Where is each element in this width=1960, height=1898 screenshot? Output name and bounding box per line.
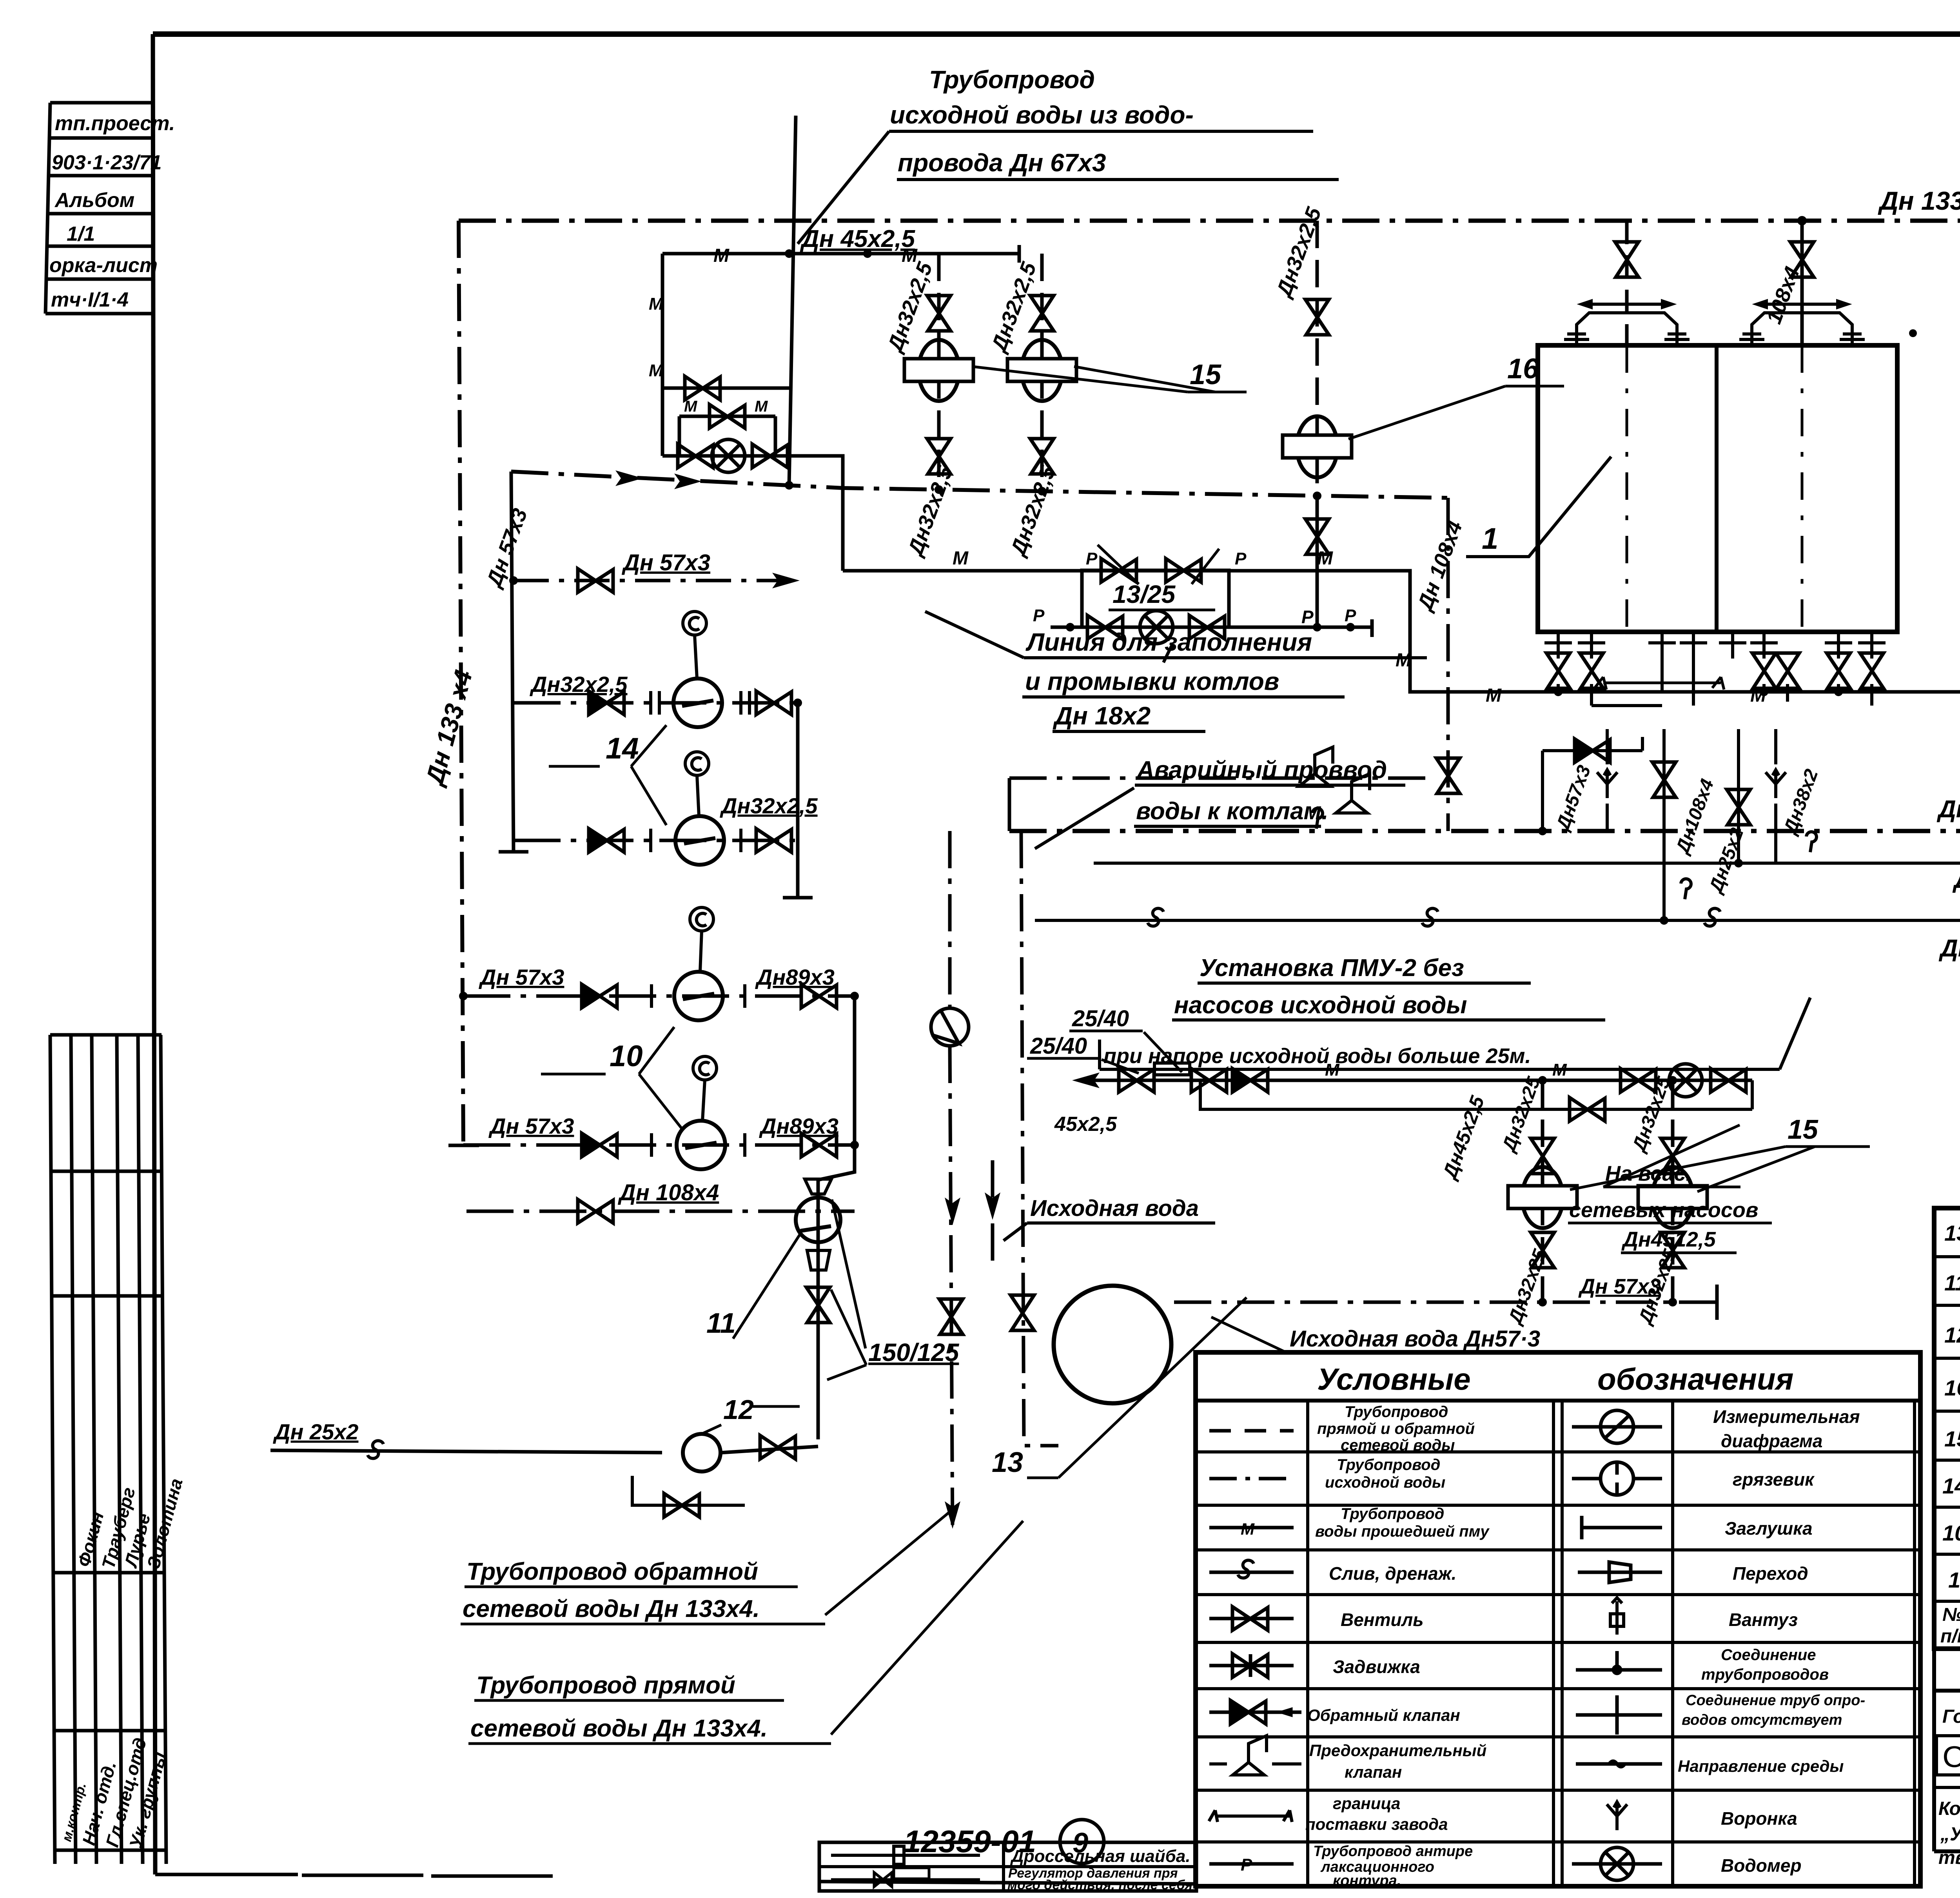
pipe: city water feed vertical <box>789 116 796 485</box>
pump row 10-1 <box>463 994 855 998</box>
svg-text:провода Дн 67х3: провода Дн 67х3 <box>898 149 1106 177</box>
pump row 10-2 <box>463 1143 855 1147</box>
annotation Трубопровод прямой сетевой воды <box>470 1672 768 1742</box>
annotation: Трубопровод исходной воды из водопровода Дн 67х3 <box>890 65 1194 177</box>
svg-text:Дн32х2,5: Дн32х2,5 <box>720 793 818 818</box>
valve <box>578 1199 613 1223</box>
svg-text:п/п.: п/п. <box>1940 1626 1960 1647</box>
valve right <box>801 984 837 1008</box>
svg-text:45х2,5: 45х2,5 <box>1054 1113 1117 1136</box>
left margin rotated signatures <box>59 1476 187 1851</box>
annotation Установка ПМУ-2 без насосов исходной воды <box>1054 954 1531 1136</box>
svg-text:25/40: 25/40 <box>1030 1033 1087 1059</box>
svg-text:М: М <box>1241 1520 1255 1538</box>
svg-text:М: М <box>713 245 730 266</box>
under-boiler group 1b <box>1719 632 1886 659</box>
svg-text:Р: Р <box>1345 606 1356 625</box>
svg-text:Трубопровод: Трубопровод <box>1345 1403 1448 1421</box>
svg-text:Предохранительный: Предохранительный <box>1309 1741 1486 1760</box>
svg-text:М: М <box>953 548 969 569</box>
svg-text:Дн89х3: Дн89х3 <box>759 1114 838 1138</box>
funnel above грязевик <box>805 1179 831 1194</box>
svg-text:14: 14 <box>1942 1473 1960 1498</box>
makeup meter row <box>662 456 843 501</box>
valve right <box>756 691 791 715</box>
svg-text:1: 1 <box>1948 1568 1960 1592</box>
legend row1 symbols <box>1209 1429 1294 1433</box>
legend row9 <box>1209 1810 1292 1822</box>
s curl <box>368 1441 383 1458</box>
svg-text:и промывки котлов: и промывки котлов <box>1025 667 1279 695</box>
svg-text:903·1·23/71: 903·1·23/71 <box>52 151 162 174</box>
right collector of 10 group / грязевик branch <box>818 996 855 1180</box>
svg-text:12: 12 <box>723 1394 754 1425</box>
boiler riser 1b <box>1800 221 1804 345</box>
title block <box>1934 1691 1960 1851</box>
svg-text:Госстрой: Госстрой <box>1942 1706 1960 1727</box>
check valve <box>589 829 624 852</box>
svg-text:Дн 57х3: Дн 57х3 <box>621 550 710 575</box>
pump 14-1 <box>673 679 722 727</box>
pipe: Дн25х2 line <box>1094 862 1960 865</box>
arrows on исходная вода line <box>615 470 643 486</box>
left margin stamp table (top) <box>45 103 152 314</box>
hand pump 12 row Дн25х2 <box>270 1446 818 1453</box>
svg-text:Дн 133х4: Дн 133х4 <box>1878 186 1960 215</box>
check valve <box>582 984 617 1008</box>
legend row6 <box>1209 1664 1294 1668</box>
central return riser (dash-dot down) <box>950 831 953 1529</box>
junction dots <box>785 249 872 258</box>
PMU unit 15c <box>1541 1080 1544 1302</box>
svg-text:Воронка: Воронка <box>1721 1808 1797 1829</box>
pipe: М-line Дн45х2,5 top <box>662 245 1019 263</box>
воронка and drops 1 <box>1607 729 1776 920</box>
svg-text:Исходная вода: Исходная вода <box>1030 1196 1199 1221</box>
pump row 14-1 <box>514 701 798 705</box>
svg-text:М: М <box>1325 1060 1340 1080</box>
svg-text:исходной воды: исходной воды <box>1325 1474 1445 1491</box>
svg-text:„Универсал- 6м": „Универсал- 6м" <box>1940 1824 1960 1845</box>
equipment table (экспликация) box <box>1934 1208 1960 1691</box>
alternative PMU feed row <box>1086 1079 1752 1082</box>
boiler center dash lines <box>1627 345 1960 632</box>
coupling marks <box>651 691 750 715</box>
boiler 1 body <box>1538 345 1897 632</box>
svg-text:прямой и обратной: прямой и обратной <box>1317 1420 1475 1437</box>
pump 10-1 <box>674 972 723 1020</box>
PMU unit 15a column <box>937 254 941 490</box>
legend row4 <box>1209 1571 1294 1574</box>
annotation Аварийный проввод воды к котлам <box>1136 757 1387 825</box>
pipe: return header Дн133х4 (dash-dot) <box>1009 829 1960 833</box>
svg-text:Задвижка: Задвижка <box>1333 1657 1420 1677</box>
svg-text:обозначения: обозначения <box>1597 1362 1793 1396</box>
svg-text:твердом: твердом <box>1938 1847 1960 1868</box>
svg-text:12: 12 <box>1944 1323 1960 1347</box>
svg-text:М: М <box>1486 685 1502 706</box>
svg-text:Р: Р <box>1241 1855 1252 1874</box>
svg-text:16: 16 <box>1944 1375 1960 1400</box>
valve <box>678 444 713 468</box>
водомер 2 <box>1669 1064 1702 1097</box>
pipe row: Дн57х3 recirc (dash-dot) <box>514 579 800 582</box>
svg-text:граница: граница <box>1333 1794 1400 1813</box>
svg-text:М: М <box>1396 650 1412 671</box>
pipe row Дн108х4 bottom (dash-dot) <box>466 1210 855 1213</box>
arrow <box>772 573 800 588</box>
водомер <box>712 439 745 472</box>
svg-text:воды прошедшей пму: воды прошедшей пму <box>1315 1523 1490 1540</box>
грязевик 11 <box>796 1198 840 1242</box>
svg-text:Р: Р <box>1235 549 1247 568</box>
svg-text:грязевик: грязевик <box>1733 1469 1815 1490</box>
svg-text:М: М <box>684 398 698 415</box>
svg-text:поставки завода: поставки завода <box>1305 1815 1448 1833</box>
svg-text:Трубопровод антире: Трубопровод антире <box>1313 1843 1473 1860</box>
junction dots pmu feeds <box>785 481 1321 500</box>
PMU unit 16 column <box>1316 221 1319 496</box>
svg-text:150/125: 150/125 <box>868 1338 960 1366</box>
svg-text:Р: Р <box>1033 606 1045 625</box>
small sub-table дроссельная шайба <box>815 1842 1196 1898</box>
svg-text:Дн 25х2: Дн 25х2 <box>273 1419 358 1444</box>
hand pump 12 circle <box>683 1434 720 1472</box>
pipe: М-line (вода прошедшая ПМУ) long horizontal <box>843 571 1960 831</box>
svg-text:Обратный клапан: Обратный клапан <box>1307 1706 1460 1724</box>
svg-text:Котельная с 4 котлами: Котельная с 4 котлами <box>1938 1798 1960 1819</box>
legend row2 <box>1209 1477 1294 1481</box>
svg-text:М: М <box>1317 548 1333 569</box>
svg-text:Трубопровод прямой: Трубопровод прямой <box>476 1672 735 1699</box>
legend table box <box>1196 1352 1920 1886</box>
svg-text:Соединение: Соединение <box>1721 1646 1816 1664</box>
svg-text:насосов исходной воды: насосов исходной воды <box>1174 992 1467 1019</box>
valve <box>752 444 788 468</box>
dome 1b <box>1739 301 1865 345</box>
svg-text:трубопроводов: трубопроводов <box>1701 1666 1829 1683</box>
valve right <box>801 1133 837 1157</box>
svg-text:орка-лист: орка-лист <box>49 254 158 277</box>
pipe: исходная вода dash-dot main <box>511 472 1448 498</box>
sensor С <box>685 752 709 775</box>
svg-text:15: 15 <box>1944 1426 1960 1451</box>
svg-text:10: 10 <box>1942 1521 1960 1545</box>
svg-text:Дн89х3: Дн89х3 <box>755 965 835 989</box>
dome 1a <box>1564 301 1690 345</box>
svg-text:Дн 57х3: Дн 57х3 <box>488 1114 574 1138</box>
bottom collector Дн57х3 <box>1174 1285 1717 1320</box>
annotation: линия для заполнения и промывки котлов Дн18х2 <box>1025 628 1312 730</box>
svg-text:Дн 57х3: Дн 57х3 <box>479 965 564 989</box>
valve right of pump 12 <box>760 1435 795 1459</box>
svg-text:15: 15 <box>1788 1114 1818 1145</box>
sensor С <box>690 907 713 931</box>
PMU unit 15d <box>1671 1080 1675 1302</box>
svg-text:сетевой воды Дн 133х4.: сетевой воды Дн 133х4. <box>463 1595 760 1622</box>
left makeup loop vertical <box>661 254 664 456</box>
svg-text:15: 15 <box>1190 359 1221 390</box>
svg-text:Вантуз: Вантуз <box>1729 1609 1798 1630</box>
funnel below <box>807 1250 830 1270</box>
svg-text:воды к котлам.: воды к котлам. <box>1136 798 1328 825</box>
аварийный проввод line <box>1009 778 1427 831</box>
svg-text:Исходная вода Дн57·3: Исходная вода Дн57·3 <box>1290 1326 1540 1352</box>
pipe: left riser Дн133х4 (dash-dot vertical) <box>448 221 479 1145</box>
svg-text:Аварийный проввод: Аварийный проввод <box>1136 757 1387 784</box>
blowdown well 13 (big circle) <box>1054 1286 1171 1403</box>
valve below грязевик <box>806 1287 830 1323</box>
left margin stamp texts <box>49 112 175 311</box>
svg-text:13/25: 13/25 <box>1112 580 1176 608</box>
check valve <box>589 691 624 715</box>
legend row7 <box>1209 1711 1301 1714</box>
annotation Трубопровод обратной сетевой воды <box>463 1558 760 1622</box>
svg-text:Альбом: Альбом <box>54 189 134 212</box>
pump 10-2 <box>677 1121 725 1169</box>
junction dots return header <box>1538 827 1960 925</box>
М-line left corner to makeup row <box>841 456 845 571</box>
svg-text:13: 13 <box>992 1447 1023 1478</box>
svg-text:сетевых насосов: сетевых насосов <box>1569 1198 1758 1222</box>
svg-text:Дн 57х3: Дн 57х3 <box>1938 935 1960 962</box>
delivery boundary marks on М-line <box>1595 677 1960 690</box>
legend row3 <box>1209 1526 1294 1530</box>
svg-text:САНТЕХПРОЕКТ: САНТЕХПРОЕКТ <box>1942 1740 1960 1774</box>
svg-text:Трубопровод: Трубопровод <box>1341 1505 1444 1522</box>
PMU unit 15b column <box>1040 254 1044 491</box>
svg-text:Заглушка: Заглушка <box>1725 1518 1813 1539</box>
valve right <box>756 829 791 852</box>
check valve <box>582 1133 617 1157</box>
водомер на линии заполнения <box>1140 611 1173 644</box>
equipment rows text <box>1942 1221 1960 1592</box>
svg-text:Условные: Условные <box>1317 1362 1471 1396</box>
svg-text:тч·I/1·4: тч·I/1·4 <box>51 289 129 311</box>
svg-text:Дн 18х2: Дн 18х2 <box>1053 702 1151 730</box>
svg-text:14: 14 <box>606 732 639 765</box>
annotation На всас. сетевых насосов <box>1569 1162 1758 1251</box>
relief valves on аварийный line <box>1299 747 1333 786</box>
svg-text:Дн 57х3: Дн 57х3 <box>1578 1275 1661 1298</box>
svg-text:М: М <box>649 361 664 380</box>
pipe: supply header Дн133х4 (dash-dot) <box>459 202 1960 239</box>
svg-text:М: М <box>649 294 664 314</box>
legend row10 <box>1209 1862 1294 1866</box>
sensor С <box>683 611 706 635</box>
makeup bypass row <box>679 416 775 456</box>
network pump symbol on return riser <box>931 1008 969 1046</box>
svg-text:1/1: 1/1 <box>67 223 95 245</box>
valve on bypass <box>710 405 745 428</box>
svg-text:11: 11 <box>1944 1270 1960 1295</box>
svg-text:Дн 133х4: Дн 133х4 <box>1936 796 1960 823</box>
svg-text:9: 9 <box>1073 1827 1088 1859</box>
pump 14-2 <box>675 816 724 865</box>
bypass loop <box>1200 1080 1752 1109</box>
boiler riser 1a <box>1625 221 1629 345</box>
svg-text:Установка ПМУ-2 без: Установка ПМУ-2 без <box>1200 954 1464 982</box>
pipe: drain line Дн57х3 with s-curls <box>1035 919 1960 922</box>
drain drops boiler1: check valve branch <box>1543 737 1642 831</box>
svg-text:Соединение труб опро-: Соединение труб опро- <box>1686 1692 1865 1709</box>
svg-text:13: 13 <box>1944 1221 1960 1245</box>
svg-text:Слив, дренаж.: Слив, дренаж. <box>1329 1563 1456 1584</box>
supply riser down to well <box>1021 831 1058 1446</box>
svg-text:11: 11 <box>706 1308 736 1339</box>
down arrow on supply riser <box>991 1160 995 1270</box>
svg-text:Направление среды: Направление среды <box>1678 1757 1844 1775</box>
svg-text:Дн 108х4: Дн 108х4 <box>617 1180 719 1205</box>
svg-text:Трубопровод обратной: Трубопровод обратной <box>466 1558 758 1585</box>
svg-text:водов отсутствует: водов отсутствует <box>1682 1712 1842 1728</box>
svg-text:Дн32х2,5: Дн32х2,5 <box>530 672 628 697</box>
svg-text:1: 1 <box>1482 522 1498 555</box>
labels 25/40 with leaders <box>1030 1006 1129 1059</box>
makeup row 1 <box>662 386 789 390</box>
svg-text:Измерительная: Измерительная <box>1713 1406 1860 1427</box>
svg-text:25/40: 25/40 <box>1072 1006 1129 1031</box>
legend row5 <box>1209 1617 1294 1620</box>
svg-text:сетевой воды: сетевой воды <box>1341 1437 1455 1454</box>
svg-text:№: № <box>1942 1604 1960 1625</box>
header row <box>1940 1604 1960 1647</box>
svg-text:10: 10 <box>610 1040 643 1073</box>
filling line cluster (13/25) bypass <box>1051 570 1372 627</box>
pump row 14-2 <box>514 839 798 842</box>
left margin tall grid (bottom) <box>50 1035 166 1864</box>
грязевик riser <box>817 1180 820 1439</box>
junction dots on М-line <box>1554 688 1960 696</box>
svg-text:клапан: клапан <box>1345 1763 1402 1781</box>
under-boiler flanges and valves group 1a <box>1544 632 1707 659</box>
svg-text:16: 16 <box>1507 353 1539 385</box>
svg-text:исходной воды из водо-: исходной воды из водо- <box>890 101 1194 129</box>
svg-text:Дн 45х2,5: Дн 45х2,5 <box>800 225 916 252</box>
big valve on left return riser <box>1436 758 1460 793</box>
svg-text:Р: Р <box>1301 607 1314 627</box>
right collector of 14 group <box>783 703 813 898</box>
svg-text:12359-01: 12359-01 <box>904 1824 1036 1859</box>
svg-text:Трубопровод: Трубопровод <box>1337 1456 1440 1473</box>
svg-text:Переход: Переход <box>1733 1563 1808 1584</box>
svg-text:Дн4512,5: Дн4512,5 <box>1621 1228 1716 1251</box>
small loop under 12 <box>632 1476 745 1517</box>
valve <box>578 569 613 592</box>
svg-text:тп.проест.: тп.проест. <box>55 112 175 135</box>
svg-text:Трубопровод: Трубопровод <box>929 65 1095 94</box>
legend row8 <box>1233 1736 1267 1775</box>
svg-text:диафрагма: диафрагма <box>1721 1431 1823 1451</box>
svg-text:М: М <box>755 398 768 415</box>
svg-text:мого действия, после себя: мого действия, после себя <box>1007 1878 1192 1893</box>
svg-text:М: М <box>1552 1060 1567 1080</box>
svg-text:Р: Р <box>1086 549 1098 568</box>
sensor С <box>693 1056 717 1080</box>
М marks on top line <box>713 245 918 266</box>
svg-text:сетевой воды Дн 133х4.: сетевой воды Дн 133х4. <box>470 1715 768 1742</box>
svg-text:Вентиль: Вентиль <box>1341 1609 1424 1630</box>
valve on row1 <box>685 376 720 400</box>
svg-text:контура.: контура. <box>1333 1873 1401 1889</box>
left manifold vertical (solid) <box>499 472 528 852</box>
svg-text:Водомер: Водомер <box>1721 1855 1802 1876</box>
